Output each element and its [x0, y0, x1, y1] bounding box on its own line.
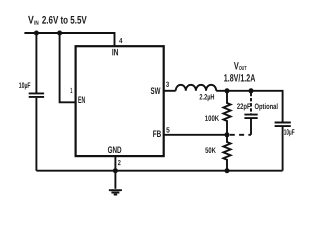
capacitor C_FF 22pF plates: [244, 115, 257, 119]
wire GND pin 2 to ground: [114, 156, 116, 189]
svg-text:2.2µH: 2.2µH: [199, 93, 214, 102]
wire ground bottom rail: [36, 170, 282, 172]
svg-text:SW: SW: [151, 86, 161, 97]
node GND junction on bottom rail: [113, 168, 118, 173]
node VOUT junction to R1: [225, 88, 230, 93]
node VIN junction to EN: [57, 31, 62, 36]
wire VIN top rail with drop to IN pin: [24, 33, 114, 46]
svg-text:2: 2: [118, 158, 121, 167]
node VOUT junction to C_FF: [249, 88, 254, 93]
svg-text:50K: 50K: [205, 146, 216, 155]
wire C_IN bottom lead: [35, 98, 37, 171]
svg-text:3: 3: [166, 80, 169, 89]
net label VOUT: [224, 60, 256, 84]
svg-text:1: 1: [70, 86, 72, 95]
svg-text:OUT: OUT: [239, 65, 247, 72]
inductor L1 2.2uH: [176, 85, 217, 91]
svg-text:1.8V/1.2A: 1.8V/1.2A: [224, 73, 256, 85]
wire C_FF bottom lead: [250, 119, 252, 135]
resistor R1 100K: [223, 91, 230, 135]
svg-text:100K: 100K: [205, 114, 220, 123]
resistor R2 50K: [223, 135, 230, 171]
svg-text:IN: IN: [112, 47, 119, 58]
svg-text:Optional: Optional: [254, 102, 278, 111]
wire SW pin to inductor: [164, 90, 176, 92]
wire EN branch: [60, 33, 76, 102]
svg-text:EN: EN: [78, 95, 85, 106]
svg-text:IN: IN: [34, 20, 39, 27]
wire dashed C_FF top lead: [250, 93, 252, 114]
node VIN junction to C_IN: [34, 31, 39, 36]
capacitor C_OUT 10uF plates: [275, 123, 291, 127]
wire C_OUT bottom lead: [282, 127, 284, 171]
svg-text:10µF: 10µF: [19, 81, 31, 90]
svg-text:GND: GND: [108, 145, 122, 156]
ground symbol: [109, 190, 122, 194]
net label VIN: [28, 15, 87, 27]
wire VOUT rail to output capacitor: [216, 91, 282, 122]
svg-text:22pF: 22pF: [237, 102, 251, 111]
svg-text:10µF: 10µF: [284, 128, 295, 137]
svg-text:5: 5: [166, 126, 170, 135]
svg-text:FB: FB: [153, 129, 162, 140]
capacitor C_IN 10uF plates: [29, 93, 44, 97]
op-amp IC U1 body: [76, 46, 164, 156]
node R2 junction on bottom rail: [225, 168, 230, 173]
node FB junction: [225, 132, 230, 137]
wire FB pin to divider: [164, 134, 227, 136]
svg-text:2.6V to 5.5V: 2.6V to 5.5V: [42, 15, 87, 27]
wire dashed C_FF to FB node: [230, 134, 251, 136]
wire C_IN top lead: [35, 33, 37, 93]
